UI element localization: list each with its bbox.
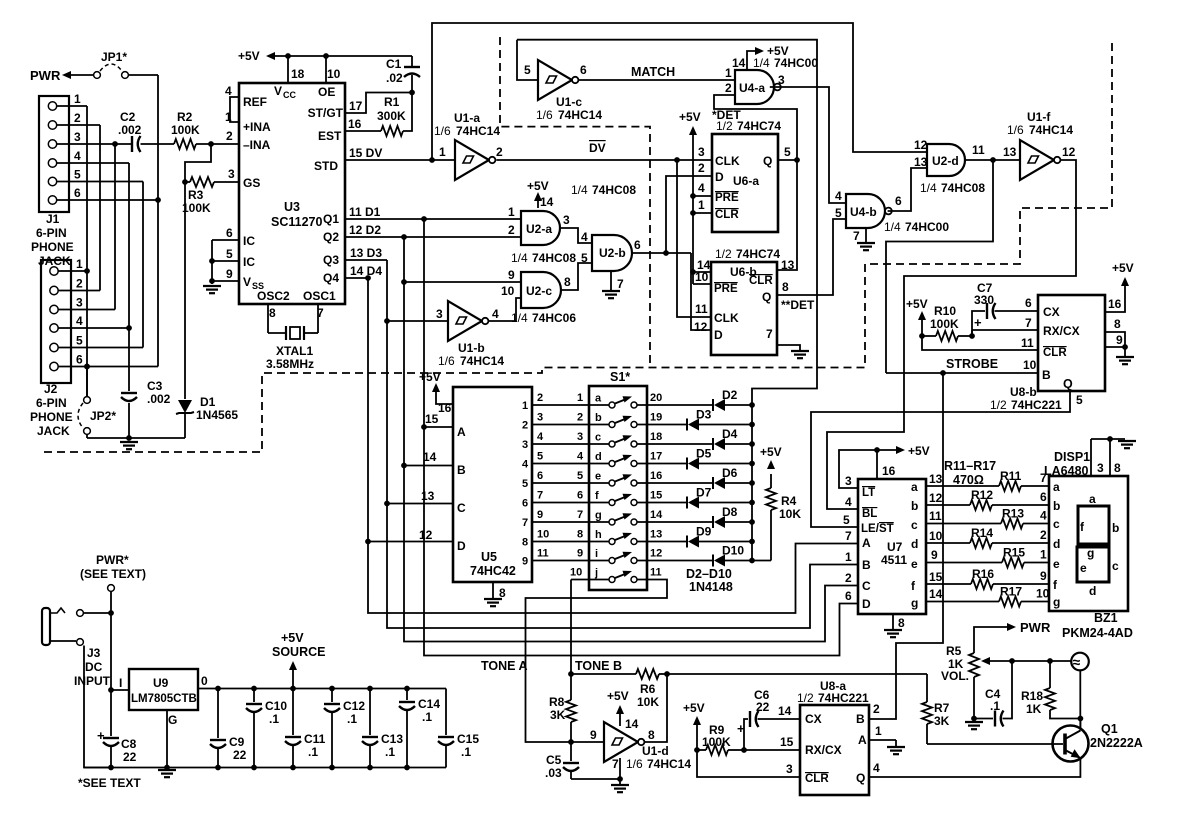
svg-text:+5V: +5V	[679, 110, 701, 124]
svg-text:R13: R13	[1002, 507, 1024, 521]
wire R7 to Q1 base	[927, 743, 1063, 745]
capacitor C9 22	[210, 689, 247, 768]
wire U4-a out to U4-b pin4	[770, 87, 846, 203]
diode D10 1N4148	[637, 544, 755, 567]
svg-text:CLR: CLR	[749, 275, 773, 287]
ground at U1-d	[611, 784, 629, 786]
svg-text:5: 5	[537, 451, 543, 463]
svg-text:c: c	[595, 432, 601, 444]
svg-text:≈: ≈	[1073, 654, 1081, 670]
svg-text:U4-a: U4-a	[739, 81, 765, 95]
svg-text:13: 13	[1003, 145, 1017, 159]
wire DV node to top rail to U2-d pin12	[432, 23, 927, 160]
svg-text:U3: U3	[284, 200, 300, 214]
crystal XTAL1 3.58MHz	[266, 304, 318, 371]
svg-text:PWR: PWR	[1020, 620, 1051, 635]
svg-text:c: c	[1053, 517, 1060, 531]
svg-text:Q1: Q1	[1101, 722, 1118, 736]
svg-text:C3: C3	[147, 379, 163, 393]
svg-text:6: 6	[895, 194, 902, 208]
svg-text:U2-d: U2-d	[932, 154, 959, 168]
resistor R14 470	[926, 526, 1049, 548]
svg-text:V: V	[274, 84, 282, 98]
svg-text:d: d	[911, 537, 918, 551]
wire R9 node to U8-a RX/CX pin15	[744, 749, 800, 751]
svg-text:1: 1	[725, 66, 732, 80]
wire J1 pin rows	[57, 106, 158, 200]
wire J2 pin rows	[58, 271, 158, 369]
svg-text:8: 8	[782, 280, 789, 294]
svg-text:PHONE: PHONE	[30, 410, 73, 424]
U3 pin labels	[225, 67, 382, 320]
svg-text:5: 5	[522, 478, 528, 490]
svg-text:74HC00: 74HC00	[774, 56, 818, 70]
svg-text:13: 13	[650, 529, 662, 541]
svg-text:ST: ST	[879, 523, 894, 535]
wire U5 outputs to S1	[522, 392, 609, 579]
flip-flop U6-b 1/2 74HC74	[694, 247, 795, 355]
svg-text:12: 12	[1062, 145, 1076, 159]
resistor R7 3K	[922, 674, 950, 744]
svg-text:PRE: PRE	[715, 192, 739, 204]
svg-text:g: g	[595, 510, 602, 522]
svg-text:3: 3	[228, 167, 235, 181]
svg-text:1/4: 1/4	[511, 311, 528, 325]
svg-text:REF: REF	[243, 95, 267, 109]
svg-text:2: 2	[698, 161, 705, 175]
svg-text:+5V: +5V	[908, 444, 930, 458]
svg-text:14: 14	[423, 450, 437, 464]
wire ground bus	[84, 765, 446, 771]
svg-text:15: 15	[425, 412, 439, 426]
svg-text:74HC08: 74HC08	[941, 181, 985, 195]
svg-text:A: A	[858, 733, 867, 747]
svg-text:10K: 10K	[637, 695, 659, 709]
svg-text:2: 2	[1040, 528, 1047, 542]
svg-text:.1: .1	[308, 745, 318, 759]
svg-text:15: 15	[650, 490, 662, 502]
svg-text:MATCH: MATCH	[631, 65, 675, 79]
svg-text:74HC08: 74HC08	[592, 183, 636, 197]
svg-text:LT: LT	[862, 487, 875, 499]
svg-text:U1-c: U1-c	[556, 95, 582, 109]
svg-text:2: 2	[76, 277, 83, 291]
svg-text:14: 14	[929, 587, 943, 601]
svg-text:17: 17	[650, 451, 662, 463]
svg-text:+5V: +5V	[238, 49, 260, 63]
svg-text:+5V: +5V	[760, 445, 782, 459]
svg-text:0: 0	[201, 674, 208, 688]
svg-text:b: b	[1112, 521, 1119, 535]
svg-text:EST: EST	[318, 129, 342, 143]
svg-text:3: 3	[563, 213, 570, 227]
svg-text:10: 10	[570, 567, 582, 579]
svg-text:PRE: PRE	[714, 283, 738, 295]
wire R5 bottom to ground node	[971, 677, 993, 721]
svg-text:8: 8	[577, 529, 583, 541]
dashed section boundary inner	[500, 37, 650, 368]
svg-text:74HC14: 74HC14	[1029, 123, 1073, 137]
svg-text:74HC08: 74HC08	[532, 251, 576, 265]
wire JP1 to J1 pin6 column	[129, 75, 161, 367]
svg-text:100K: 100K	[930, 317, 959, 331]
svg-text:+5V: +5V	[607, 689, 629, 703]
wire R10 node to U8-b RX/CX pin7	[972, 329, 1038, 331]
svg-text:XTAL1: XTAL1	[276, 344, 313, 358]
svg-text:74HC14: 74HC14	[456, 124, 500, 138]
svg-text:+5V: +5V	[1112, 261, 1134, 275]
svg-text:11: 11	[537, 548, 549, 560]
svg-text:10: 10	[501, 284, 515, 298]
svg-text:100K: 100K	[182, 201, 211, 215]
svg-text:e: e	[911, 557, 918, 571]
svg-text:6-PIN: 6-PIN	[36, 226, 67, 240]
svg-text:7: 7	[1025, 316, 1032, 330]
svg-text:Q: Q	[856, 771, 865, 785]
svg-text:SC11270: SC11270	[271, 215, 322, 229]
svg-text:20: 20	[650, 392, 662, 404]
wire U1-d input	[571, 741, 604, 743]
svg-text:Q: Q	[762, 290, 771, 304]
svg-text:5: 5	[843, 513, 850, 527]
svg-text:R12: R12	[971, 488, 993, 502]
svg-text:11 D1: 11 D1	[349, 205, 381, 219]
capacitor C2 .002	[118, 110, 142, 152]
resistor R12 470	[926, 488, 1049, 510]
svg-text:+: +	[737, 721, 745, 736]
diode D6 1N4148	[637, 466, 755, 489]
svg-text:Q: Q	[1063, 377, 1073, 391]
wire U2-d out to U1-f	[965, 157, 1020, 163]
svg-text:2: 2	[522, 420, 528, 432]
svg-text:11: 11	[929, 509, 942, 523]
svg-text:74HC42: 74HC42	[470, 564, 516, 578]
svg-text:g: g	[1087, 546, 1094, 560]
wire U6-b Q (**DET) to U4-b pin5	[777, 219, 846, 312]
display DISP1 LA6480	[1044, 450, 1128, 611]
svg-text:5: 5	[226, 247, 233, 261]
svg-text:A: A	[862, 536, 871, 550]
svg-text:2: 2	[725, 81, 732, 95]
wire +5V rail to U8-a CLR pin3	[697, 750, 800, 777]
svg-text:4: 4	[1040, 509, 1047, 523]
svg-text:JP1*: JP1*	[101, 50, 127, 64]
connector PWR* (see text)	[80, 553, 146, 591]
svg-text:CC: CC	[283, 90, 296, 100]
svg-text:8: 8	[898, 616, 905, 630]
nand gate U4-a 1/4 74HC00	[725, 56, 818, 104]
svg-text:16: 16	[882, 464, 896, 478]
wire U8-b Q pin5 to LE/ST and U1-c feedback	[811, 391, 1070, 527]
diode D4 1N4148	[637, 427, 755, 450]
svg-text:RX/CX: RX/CX	[805, 743, 842, 757]
svg-text:6: 6	[226, 226, 233, 240]
+5V SOURCE arrow	[272, 631, 325, 689]
and gate U2-d 1/4 74HC08	[914, 138, 985, 195]
svg-text:74HC14: 74HC14	[558, 108, 602, 122]
ground at U6-b	[791, 350, 809, 352]
+5V at U2-a pin14	[527, 179, 549, 208]
ground at C3	[120, 441, 138, 443]
svg-text:+5V: +5V	[281, 631, 304, 645]
svg-text:+5V: +5V	[906, 297, 928, 311]
wire data line D3 (Q3)	[345, 260, 858, 628]
svg-text:6: 6	[74, 186, 81, 200]
+5V at R10	[906, 297, 928, 336]
svg-text:U4-b: U4-b	[850, 205, 877, 219]
svg-text:U8-b: U8-b	[1010, 385, 1037, 399]
svg-text:5: 5	[76, 334, 83, 348]
svg-text:3: 3	[76, 296, 83, 310]
svg-text:12: 12	[694, 320, 708, 334]
svg-text:f: f	[595, 490, 599, 502]
wire MATCH U1-c out to U4-a pin1	[578, 65, 735, 80]
IC U8-b 1/2 74HC221	[990, 295, 1123, 412]
svg-text:74HC14: 74HC14	[460, 354, 504, 368]
svg-text:C14: C14	[418, 697, 440, 711]
svg-text:U1-f: U1-f	[1027, 110, 1051, 124]
svg-text:300K: 300K	[377, 109, 406, 123]
svg-text:16: 16	[438, 401, 452, 415]
svg-text:1/4: 1/4	[753, 56, 770, 70]
+5V at R9	[683, 701, 705, 753]
svg-text:3K: 3K	[934, 714, 950, 728]
resistor R13 470	[926, 507, 1049, 529]
svg-text:2: 2	[496, 145, 503, 159]
svg-text:C2: C2	[120, 110, 136, 124]
svg-text:a: a	[1053, 480, 1060, 494]
svg-text:OE: OE	[318, 85, 335, 99]
svg-text:1/4: 1/4	[511, 251, 528, 265]
wire U1-a out (DV bar) to U6-a CLK	[496, 141, 712, 163]
and gate U2-a 1/4 74HC08	[508, 195, 576, 265]
svg-text:C11: C11	[304, 732, 326, 746]
capacitor C6 22	[737, 688, 800, 750]
wire keypad diode bus	[751, 405, 753, 561]
wire U2-a out to U2-b pin4	[560, 228, 592, 243]
svg-text:C9: C9	[229, 735, 245, 749]
wire ST/GT pin17 to C1 node	[345, 93, 412, 114]
svg-text:7: 7	[853, 229, 860, 243]
ground at R5/C4	[965, 721, 983, 723]
svg-text:10: 10	[327, 67, 341, 81]
ground at U3 VSS	[203, 285, 221, 287]
svg-text:4: 4	[76, 314, 83, 328]
svg-text:R1: R1	[384, 95, 400, 109]
svg-text:.1: .1	[269, 712, 279, 726]
svg-text:C5: C5	[546, 753, 562, 767]
svg-text:3: 3	[1097, 461, 1104, 475]
svg-text:JACK: JACK	[37, 424, 70, 438]
diode D9 1N4148	[637, 525, 755, 548]
svg-text:15 DV: 15 DV	[349, 146, 382, 160]
+5V rail at U6-a PRE/CLR	[679, 110, 712, 284]
svg-text:R16: R16	[972, 567, 994, 581]
resistor R11 470	[926, 469, 1049, 491]
svg-text:1/4: 1/4	[571, 183, 588, 197]
svg-text:D2–D10: D2–D10	[686, 567, 732, 581]
svg-text:2: 2	[873, 702, 880, 716]
potentiometer R5 1K VOL	[941, 644, 1012, 683]
+5V at U8-b pin16	[1105, 261, 1134, 312]
wire data line D2 (Q2)	[345, 234, 858, 641]
svg-text:–INA: –INA	[243, 138, 271, 152]
svg-text:3: 3	[522, 439, 528, 451]
svg-text:8: 8	[648, 728, 655, 742]
ground at U8-a pin1	[887, 746, 905, 748]
wire U2-b out to U6 D inputs	[631, 250, 711, 330]
wire STROBE row to U8-b B pin10	[886, 357, 1038, 376]
svg-text:1: 1	[698, 198, 705, 212]
svg-text:U5: U5	[481, 550, 497, 564]
svg-text:9: 9	[226, 267, 233, 281]
svg-text:U1-d: U1-d	[642, 744, 669, 758]
wire U2-b gnd pin7	[610, 271, 612, 290]
svg-text:7: 7	[537, 490, 543, 502]
svg-text:14: 14	[650, 509, 663, 521]
IC U8-a 1/2 74HC221	[778, 679, 882, 795]
svg-text:b: b	[595, 412, 602, 424]
svg-text:b: b	[1053, 499, 1060, 513]
svg-text:C10: C10	[265, 699, 287, 713]
wire U1-b out to U2-c pin10	[488, 298, 521, 321]
svg-text:12: 12	[650, 548, 662, 560]
svg-text:13: 13	[914, 155, 928, 169]
capacitor C8 22	[97, 728, 137, 768]
svg-text:PHONE: PHONE	[31, 240, 74, 254]
svg-text:9: 9	[537, 509, 543, 521]
svg-text:3: 3	[537, 412, 543, 424]
svg-text:6: 6	[76, 353, 83, 367]
svg-text:a: a	[1089, 492, 1096, 506]
svg-text:14: 14	[625, 717, 639, 731]
svg-text:+5V: +5V	[527, 179, 549, 193]
wire U1-d out to R6/R7 line	[644, 674, 927, 742]
svg-text:1: 1	[522, 400, 528, 412]
wire U5 pin8 to ground	[493, 582, 506, 600]
svg-text:4: 4	[873, 761, 880, 775]
svg-text:+: +	[974, 315, 982, 330]
svg-text:10: 10	[929, 529, 943, 543]
svg-text:.1: .1	[461, 745, 471, 759]
wire PWR* column	[108, 592, 114, 737]
svg-text:11: 11	[1021, 336, 1034, 350]
diode D7 1N4148	[637, 486, 755, 509]
resistor R3 100K	[182, 177, 214, 215]
svg-text:OSC2: OSC2	[257, 289, 290, 303]
svg-text:6: 6	[845, 589, 852, 603]
capacitor C1 .02	[386, 56, 420, 95]
wire U6-b pin7 to ground	[777, 345, 800, 350]
svg-text:TONE A: TONE A	[481, 659, 528, 673]
svg-text:R2: R2	[177, 110, 193, 124]
svg-text:74HC06: 74HC06	[532, 311, 576, 325]
wire C2 to R2	[141, 143, 175, 145]
svg-text:4: 4	[581, 230, 588, 244]
svg-text:R7: R7	[934, 701, 950, 715]
svg-text:5: 5	[524, 63, 531, 77]
svg-text:3: 3	[74, 130, 81, 144]
diode D5 1N4148	[637, 447, 755, 470]
svg-text:9: 9	[1040, 569, 1047, 583]
svg-text:g: g	[1053, 595, 1060, 609]
svg-text:9: 9	[577, 548, 583, 560]
svg-text:14: 14	[778, 704, 792, 718]
connector J2 6-pin phone jack	[30, 257, 83, 438]
svg-text:TONE B: TONE B	[575, 659, 622, 673]
svg-text:74HC74: 74HC74	[736, 247, 780, 261]
ground at U9	[158, 769, 176, 771]
svg-text:C12: C12	[343, 699, 365, 713]
wire R2 to U3 -INA pin 2	[196, 141, 239, 147]
svg-text:B: B	[856, 712, 865, 726]
resistor R9 100K	[697, 723, 747, 755]
svg-text:JP2*: JP2*	[90, 409, 116, 423]
+5V at U4-a pin14	[747, 44, 789, 70]
svg-text:g: g	[911, 596, 918, 610]
svg-text:.1: .1	[385, 745, 395, 759]
svg-text:CLR: CLR	[805, 773, 829, 785]
svg-text:5: 5	[784, 145, 791, 159]
svg-text:(SEE TEXT): (SEE TEXT)	[80, 567, 146, 581]
resistor R15 470	[926, 546, 1049, 568]
svg-text:3: 3	[577, 431, 583, 443]
ground at U4-b	[857, 242, 875, 244]
svg-text:CX: CX	[805, 712, 822, 726]
svg-text:GS: GS	[243, 176, 260, 190]
svg-text:1/2: 1/2	[797, 691, 814, 705]
svg-text:SOURCE: SOURCE	[272, 645, 325, 659]
connector J3 DC input	[42, 608, 111, 688]
svg-text:7: 7	[617, 277, 624, 291]
resistor R1 300K	[345, 93, 412, 137]
svg-text:R4: R4	[781, 494, 797, 508]
svg-text:11: 11	[695, 302, 708, 316]
svg-text:RX/CX: RX/CX	[1043, 324, 1080, 338]
svg-text:Q: Q	[763, 154, 772, 168]
wire U8-a Q pin4 to Q1 emitter	[869, 758, 1080, 777]
svg-text:J3: J3	[87, 646, 101, 660]
flip-flop U6-a 1/2 74HC74	[698, 119, 791, 232]
svg-text:B: B	[862, 558, 871, 572]
svg-text:15: 15	[929, 570, 943, 584]
svg-text:5: 5	[835, 206, 842, 220]
inverter U1-a 1/6 74HC14	[434, 111, 503, 180]
wire +5V node to U8-b CLR pin11	[922, 336, 1038, 350]
svg-text:V: V	[243, 275, 251, 289]
svg-text:R17: R17	[1000, 585, 1022, 599]
svg-text:U2-a: U2-a	[526, 222, 552, 236]
svg-text:S1*: S1*	[610, 370, 630, 384]
svg-text:R18: R18	[1021, 689, 1043, 703]
svg-text:1/6: 1/6	[626, 757, 643, 771]
svg-text:DC: DC	[85, 660, 103, 674]
svg-text:22: 22	[233, 748, 247, 762]
capacitor C10 .1	[246, 689, 287, 768]
svg-text:.002: .002	[118, 123, 142, 137]
wire *DET U6-a Q to U4-a pin2	[712, 95, 800, 270]
svg-text:22: 22	[123, 750, 137, 764]
dashed section boundary outer	[44, 40, 1112, 452]
svg-text:74HC00: 74HC00	[905, 220, 949, 234]
svg-text:U9: U9	[153, 676, 169, 690]
svg-text:12 D2: 12 D2	[349, 223, 381, 237]
svg-text:13: 13	[781, 258, 795, 272]
svg-text:10: 10	[1036, 587, 1050, 601]
ground at U2-b	[602, 290, 620, 292]
wire TONE A from S1 pin11 to U1-d input node	[481, 580, 667, 743]
svg-text:4: 4	[492, 307, 499, 321]
